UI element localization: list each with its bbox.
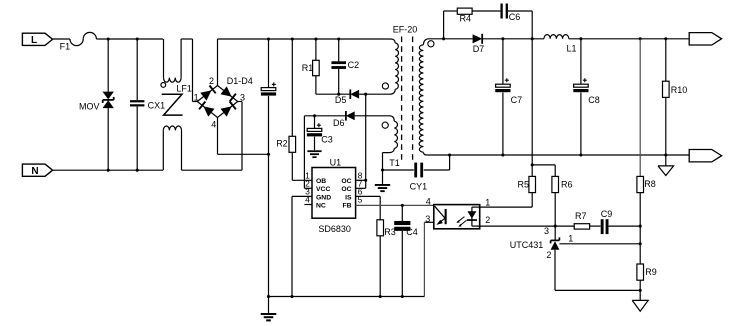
junction return/R10: [664, 153, 667, 156]
transformer T1 core: [389, 25, 417, 169]
op-amp U1 SD6830 (PWM controller IC): [305, 158, 362, 234]
capacitor C8: [573, 39, 600, 155]
junction C2/snubber: [337, 93, 340, 96]
capacitor C4: [394, 205, 418, 296]
junction out/C6-R5: [531, 37, 534, 40]
svg-text:1: 1: [568, 233, 573, 243]
wire opto pin3 to bus: [424, 222, 433, 296]
junction divider mid/R8: [639, 225, 642, 228]
svg-text:R9: R9: [645, 267, 657, 277]
transformer T1 primary winding: [382, 43, 398, 89]
svg-text:IS: IS: [345, 194, 352, 201]
ground (output return): [658, 155, 674, 176]
svg-text:GND: GND: [316, 194, 331, 201]
wire MOV branch: [107, 39, 109, 170]
wire D6 anode to aux winding: [355, 116, 395, 122]
svg-text:R6: R6: [561, 179, 573, 189]
svg-text:D7: D7: [473, 44, 485, 54]
svg-text:4: 4: [426, 196, 431, 206]
wire LF1 to bridge pin1: [193, 39, 198, 102]
capacitor C3: [307, 116, 333, 150]
junction OC pin8: [364, 179, 367, 182]
junction D5/drain: [364, 93, 367, 96]
resistor R6: [532, 165, 572, 226]
junction node L/MOV: [107, 37, 110, 40]
junction return/CY1: [448, 153, 451, 156]
wire bulk cap branch: [268, 39, 270, 297]
svg-text:N: N: [31, 166, 38, 177]
svg-text:1: 1: [485, 197, 490, 207]
wire UTC431 ref: [559, 243, 640, 245]
svg-text:CY1: CY1: [410, 181, 428, 191]
svg-text:3: 3: [544, 226, 549, 236]
wire opto pin2 to node3: [480, 225, 556, 227]
junction rail/bulk cap: [267, 37, 270, 40]
svg-text:C7: C7: [511, 95, 523, 105]
junction bus/R3: [379, 295, 382, 298]
inductor L1: [544, 35, 577, 54]
junction ref/divider: [639, 242, 642, 245]
svg-text:C2: C2: [348, 60, 360, 70]
wire IS pin6 to R3: [356, 196, 381, 219]
wire FB pin5 to optocoupler: [356, 204, 434, 206]
svg-text:C8: C8: [588, 95, 600, 105]
svg-text:EF-20: EF-20: [393, 25, 418, 35]
svg-text:R5: R5: [517, 179, 529, 189]
capacitor C9: [590, 209, 641, 234]
terminal output positive: [689, 33, 721, 45]
wire snubber bottom: [316, 93, 350, 95]
resistor R2: [276, 39, 295, 180]
svg-text:D5: D5: [335, 95, 347, 105]
diode D5: [335, 89, 359, 105]
resistor R9: [637, 244, 657, 291]
junction aux gnd / CY1: [381, 168, 384, 171]
svg-text:R1: R1: [302, 63, 314, 73]
terminal N (neutral input): [22, 164, 52, 177]
transformer T1 aux winding: [382, 121, 397, 170]
resistor R10: [663, 39, 688, 155]
svg-text:1: 1: [194, 93, 199, 103]
diode D6: [333, 111, 355, 128]
junction N/CX1: [136, 169, 139, 172]
wire UTC431 anode to gnd: [555, 289, 640, 291]
svg-text:FB: FB: [343, 202, 352, 209]
wire VCC line: [304, 116, 346, 189]
junction anode/gnd: [639, 289, 642, 292]
optocoupler U2: [425, 196, 490, 228]
resistor R5: [480, 165, 536, 207]
svg-text:2: 2: [485, 215, 490, 225]
svg-text:R3: R3: [384, 227, 396, 237]
junction return/C8: [579, 153, 582, 156]
svg-text:LF1: LF1: [176, 84, 192, 94]
ground (T1 primary): [375, 170, 390, 192]
svg-text:C3: C3: [321, 135, 333, 145]
wire bridge- to gnd bus: [218, 118, 269, 155]
ground (feedback): [632, 290, 648, 311]
resistor R4 / capacitor C6 snubber loop: [444, 4, 533, 39]
svg-text:R4: R4: [460, 13, 472, 23]
resistor R3: [377, 220, 396, 297]
wire D7 to L1: [482, 38, 544, 40]
junction snubber left: [442, 37, 445, 40]
capacitor CY1: [383, 155, 450, 191]
wire feedback supply: [531, 39, 533, 165]
junction return/C7: [501, 153, 504, 156]
wire R2 to pin1 OB: [292, 179, 312, 181]
svg-text:VCC: VCC: [316, 186, 330, 193]
junction rail/C2: [337, 37, 340, 40]
svg-text:4: 4: [211, 119, 216, 129]
svg-text:R8: R8: [644, 179, 656, 189]
transformer T1 secondary winding: [419, 39, 434, 155]
wire DC top rail: [218, 39, 396, 43]
svg-text:NC: NC: [316, 202, 326, 209]
bridge rectifier D1-D4: [194, 76, 253, 129]
shunt regulator UTC431: [510, 226, 573, 290]
svg-text:OB: OB: [316, 178, 326, 185]
junction VCC/C3: [313, 114, 316, 117]
svg-text:R2: R2: [276, 139, 288, 149]
junction bus/C4: [401, 295, 404, 298]
wire drain to OC pins: [356, 94, 366, 188]
wire N line to bridge pin3: [182, 102, 243, 171]
wire secondary return line: [427, 154, 689, 156]
wire L terminal to fuse: [53, 38, 70, 40]
junction rail/R2: [291, 37, 294, 40]
junction out/C7: [501, 37, 504, 40]
junction out/R8: [639, 37, 642, 40]
resistor R8: [637, 39, 656, 226]
capacitor bulk electrolytic: [261, 82, 276, 95]
svg-text:F1: F1: [60, 41, 71, 51]
junction bus/bulk cap: [267, 295, 270, 298]
wire bridge+ to DC rail: [217, 39, 219, 86]
junction out/C8: [579, 37, 582, 40]
svg-text:T1: T1: [389, 158, 400, 168]
svg-text:OC: OC: [341, 186, 351, 193]
svg-text:L1: L1: [567, 43, 577, 53]
svg-text:C6: C6: [509, 12, 521, 22]
ground (C3): [307, 150, 321, 158]
svg-text:MOV: MOV: [79, 101, 100, 111]
svg-text:U1: U1: [330, 158, 342, 168]
svg-text:OC: OC: [341, 178, 351, 185]
diode D7: [473, 34, 485, 54]
capacitor CX1: [130, 100, 165, 110]
svg-text:D6: D6: [333, 118, 345, 128]
junction rail/R1: [314, 37, 317, 40]
resistor R1: [302, 39, 319, 94]
wire N terminal to LF1: [53, 169, 163, 171]
wire fuse to LF1 (top rail): [96, 38, 163, 40]
svg-text:R10: R10: [671, 85, 688, 95]
junction N/MOV: [107, 169, 110, 172]
svg-text:D1-D4: D1-D4: [227, 76, 253, 86]
junction FB/C4: [401, 204, 404, 207]
wire NC pin4 stub: [304, 204, 312, 206]
junction node L/CX1: [136, 37, 139, 40]
svg-text:R7: R7: [575, 211, 587, 221]
wire primary ground bus: [269, 296, 425, 298]
fuse F1: [60, 32, 97, 51]
capacitor C7: [495, 39, 522, 155]
wire L1 to output terminal: [569, 38, 689, 40]
junction R5/R6 top: [531, 163, 534, 166]
svg-text:C4: C4: [406, 227, 418, 237]
wire secondary to D7: [428, 38, 472, 40]
svg-text:SD6830: SD6830: [318, 224, 351, 234]
inductor LF1 (common-mode choke): [161, 39, 193, 170]
svg-text:2: 2: [209, 76, 214, 86]
svg-text:L: L: [31, 35, 37, 46]
terminal output negative: [689, 150, 721, 162]
terminal L (line input): [22, 33, 52, 46]
svg-text:CX1: CX1: [148, 100, 166, 110]
svg-text:2: 2: [546, 250, 551, 260]
svg-text:C9: C9: [601, 209, 613, 219]
wire D5 anode to primary: [359, 89, 395, 94]
junction bridge-/bulk cap: [267, 153, 270, 156]
ground (primary bus): [261, 297, 277, 322]
svg-text:UTC431: UTC431: [510, 240, 544, 250]
svg-text:3: 3: [240, 93, 245, 103]
varistor MOV: [79, 92, 114, 112]
capacitor C2: [331, 39, 359, 94]
wire GND pin3 to bus: [292, 196, 312, 296]
wire divider: [639, 226, 641, 244]
wire CX1 branch: [136, 39, 138, 170]
junction node 3: [544, 225, 557, 236]
junction out/R10: [664, 37, 667, 40]
junction bus/U1 gnd: [290, 295, 293, 298]
resistor R7: [555, 211, 589, 229]
